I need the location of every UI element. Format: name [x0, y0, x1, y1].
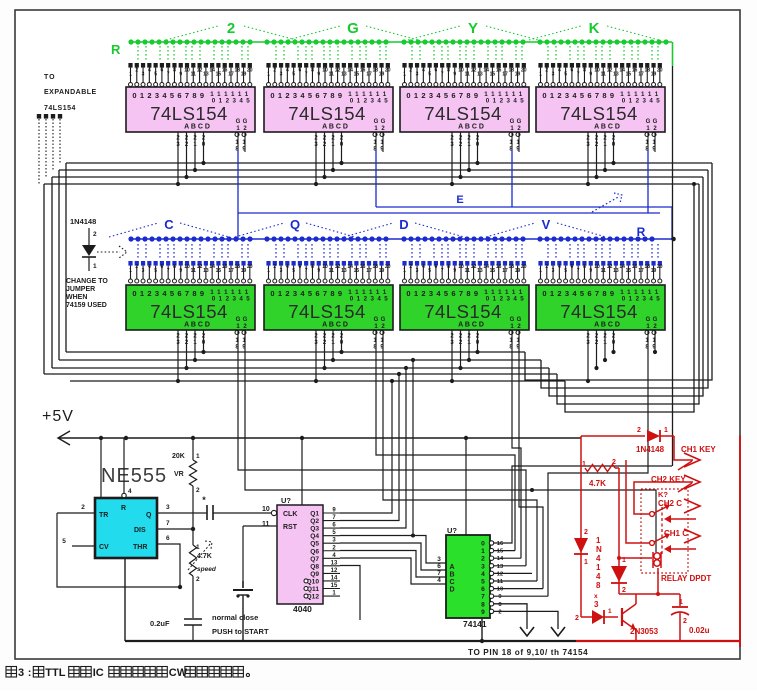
NE555 pin 2 TR wire	[57, 512, 95, 514]
svg-text:V: V	[542, 217, 551, 232]
wire lower bus 4	[44, 373, 557, 375]
wire bus B (top horizontal)	[59, 169, 708, 171]
svg-text:K: K	[589, 20, 600, 37]
svg-text:8: 8	[447, 264, 450, 270]
svg-text:G: G	[517, 119, 522, 125]
wire +5V junction to 74141	[465, 438, 467, 535]
wire U6 G pins down	[376, 331, 515, 551]
svg-text:Q12: Q12	[307, 594, 320, 601]
svg-text:3: 3	[142, 268, 145, 274]
svg-text:7: 7	[441, 72, 444, 78]
expansion dotted wires	[38, 119, 40, 184]
svg-text:2: 2	[196, 576, 200, 583]
svg-text:2: 2	[93, 231, 97, 238]
svg-text:5: 5	[170, 91, 174, 100]
wire bus D (top horizontal)	[44, 183, 699, 185]
svg-text:14: 14	[347, 68, 353, 74]
svg-text:1: 1	[550, 91, 554, 100]
svg-text:4: 4	[239, 296, 243, 303]
svg-text:4: 4	[377, 296, 381, 303]
svg-text:12: 12	[335, 264, 341, 270]
wires U2 ABCD pins to bus	[315, 132, 317, 184]
expansion pin squares	[37, 114, 41, 119]
svg-text:NE555: NE555	[101, 465, 167, 487]
svg-text:K?: K?	[658, 490, 668, 499]
svg-text:1: 1	[584, 559, 588, 566]
svg-text:8: 8	[583, 264, 586, 270]
svg-text:20: 20	[657, 264, 663, 270]
wire +5V to 4040 VCC	[301, 438, 303, 505]
NE555 pin 7 DIS wire	[157, 528, 193, 530]
svg-text:15: 15	[354, 72, 360, 78]
NE555 pin 3 Q output wire	[157, 512, 205, 514]
svg-text:7: 7	[481, 594, 485, 601]
svg-text:3: 3	[232, 98, 236, 105]
svg-text:5: 5	[170, 289, 174, 298]
svg-text:8: 8	[192, 91, 196, 100]
svg-text:19: 19	[241, 268, 247, 274]
svg-text:3: 3	[280, 268, 283, 274]
svg-text:4: 4	[513, 296, 517, 303]
svg-text::: :	[28, 667, 32, 679]
svg-text:PUSH to START: PUSH to START	[212, 627, 269, 636]
svg-text:10: 10	[184, 68, 190, 74]
svg-text:3: 3	[552, 72, 555, 78]
IC U4 74LS154 (top row)	[538, 63, 542, 68]
svg-text:12: 12	[471, 68, 477, 74]
svg-text:G: G	[653, 317, 658, 323]
wire U5 G1 down to 74141 output	[238, 331, 526, 566]
svg-text:2: 2	[135, 264, 138, 270]
svg-text:0: 0	[481, 541, 485, 548]
svg-text:4: 4	[128, 488, 132, 495]
svg-text:20: 20	[521, 68, 527, 74]
svg-text:2: 2	[285, 91, 289, 100]
svg-text:U?: U?	[447, 526, 457, 535]
wire U2 G pins down (blue)	[375, 150, 377, 207]
NE555 pin 4 reset to +5V	[123, 438, 125, 494]
svg-text:2: 2	[584, 529, 588, 536]
svg-text:74LS154: 74LS154	[560, 301, 638, 322]
svg-text:6: 6	[315, 91, 319, 100]
svg-text:1: 1	[539, 72, 542, 78]
svg-text:1: 1	[278, 289, 282, 298]
svg-text:1: 1	[140, 91, 144, 100]
wire U4 G pins down (blue)	[647, 150, 649, 213]
svg-text:20K: 20K	[172, 453, 185, 460]
svg-text:10: 10	[594, 68, 600, 74]
svg-text:19: 19	[241, 72, 247, 78]
svg-text:20: 20	[385, 68, 391, 74]
svg-text:3: 3	[293, 289, 297, 298]
wire CH1 KEY to pole 1	[626, 460, 649, 543]
svg-text:8: 8	[311, 68, 314, 74]
svg-text:16: 16	[496, 68, 502, 74]
svg-text:4: 4	[422, 264, 425, 270]
svg-text:1: 1	[582, 461, 586, 468]
svg-text:6: 6	[435, 68, 438, 74]
svg-text:4: 4	[437, 577, 441, 584]
svg-text:11: 11	[329, 72, 335, 78]
svg-text:4: 4	[513, 98, 517, 105]
relay mechanical link dashed	[661, 507, 663, 556]
svg-text:19: 19	[651, 268, 657, 274]
svg-text:2: 2	[557, 289, 561, 298]
svg-text:2: 2	[622, 587, 626, 594]
wires 74141 bottom outputs to arrows	[494, 604, 527, 629]
svg-text:74LS154: 74LS154	[560, 103, 638, 124]
svg-text:2: 2	[545, 264, 548, 270]
svg-text:8: 8	[466, 91, 470, 100]
svg-text:8: 8	[173, 68, 176, 74]
wire red right rail	[618, 468, 620, 594]
svg-text:JUMPER: JUMPER	[66, 286, 95, 293]
wire blue enable net from U1 G pins	[237, 150, 239, 239]
svg-text:7: 7	[437, 570, 441, 577]
svg-text:5: 5	[384, 296, 388, 303]
svg-text:7: 7	[323, 91, 327, 100]
svg-text:G: G	[243, 119, 248, 125]
svg-text:2N3053: 2N3053	[630, 627, 659, 636]
svg-text:*: *	[202, 495, 206, 505]
wire CH2 KEY to pole 2	[634, 482, 693, 514]
svg-text:8: 8	[602, 91, 606, 100]
svg-text:CLK: CLK	[283, 511, 297, 518]
wire lower bus 3	[52, 367, 549, 369]
green dashed ticks below top bus	[138, 46, 658, 61]
svg-text:6: 6	[315, 289, 319, 298]
svg-text:CH2 C: CH2 C	[658, 499, 682, 508]
svg-text:0.02u: 0.02u	[689, 626, 710, 635]
wire left bracket 4	[43, 184, 45, 374]
svg-text:TO PIN 18 of 9,10/ th 74154: TO PIN 18 of 9,10/ th 74154	[468, 648, 588, 657]
svg-text:Y: Y	[468, 20, 478, 37]
svg-text:Q2: Q2	[310, 518, 319, 525]
svg-text:normal close: normal close	[212, 613, 258, 622]
svg-text:14: 14	[209, 264, 215, 270]
svg-text:20: 20	[521, 264, 527, 270]
wire blue horizontal E net lower	[238, 212, 660, 214]
svg-text:74LS154: 74LS154	[150, 103, 228, 124]
svg-text:1: 1	[539, 268, 542, 274]
svg-text:16: 16	[497, 541, 504, 547]
svg-text:5: 5	[292, 72, 295, 78]
svg-text:9: 9	[453, 72, 456, 78]
svg-text:3: 3	[142, 72, 145, 78]
svg-text:3: 3	[594, 600, 599, 609]
svg-text:5: 5	[564, 72, 567, 78]
svg-text:2: 2	[637, 427, 641, 434]
svg-text:G: G	[347, 20, 359, 37]
wire lower bus 2	[59, 359, 541, 361]
NE555 pin 1 gnd	[124, 558, 126, 641]
svg-text:12: 12	[335, 68, 341, 74]
svg-text:A B C D: A B C D	[184, 322, 210, 329]
svg-text:9: 9	[474, 289, 478, 298]
svg-text:0: 0	[270, 289, 274, 298]
svg-text:2: 2	[147, 289, 151, 298]
svg-text:9: 9	[179, 72, 182, 78]
svg-text:9: 9	[589, 72, 592, 78]
wires 4040 Q4-Q7 to 74141 inputs	[340, 536, 446, 564]
svg-text:WHEN: WHEN	[66, 294, 87, 301]
svg-text:12: 12	[607, 264, 613, 270]
svg-text:Q3: Q3	[310, 526, 319, 533]
NE555 pin 6 THR wire	[157, 544, 180, 587]
svg-text:4: 4	[286, 264, 289, 270]
svg-text:6: 6	[451, 91, 455, 100]
svg-text:0: 0	[406, 289, 410, 298]
svg-text:18: 18	[372, 264, 378, 270]
svg-text:3: 3	[642, 98, 646, 105]
svg-text:N: N	[596, 545, 602, 554]
IC U6 74LS154 (green row)	[266, 261, 270, 266]
svg-text:6: 6	[451, 289, 455, 298]
svg-text:1: 1	[414, 91, 418, 100]
svg-text:5: 5	[246, 98, 250, 105]
svg-text:G: G	[653, 119, 658, 125]
svg-text:8: 8	[447, 68, 450, 74]
svg-text:7: 7	[459, 91, 463, 100]
middle LED bus dots	[128, 236, 654, 241]
svg-text:5: 5	[292, 268, 295, 274]
svg-text:8: 8	[330, 289, 334, 298]
svg-text:2: 2	[273, 264, 276, 270]
svg-text:6: 6	[177, 289, 181, 298]
caption figure 3	[6, 667, 17, 678]
svg-text:5: 5	[656, 98, 660, 105]
svg-text:2: 2	[196, 487, 200, 494]
svg-text:5: 5	[481, 579, 485, 586]
svg-text:0.2uF: 0.2uF	[150, 619, 170, 628]
IC U2 74LS154 (top row)	[266, 63, 270, 68]
svg-text:7: 7	[577, 268, 580, 274]
svg-text:17: 17	[638, 268, 644, 274]
svg-text:A B C D: A B C D	[594, 124, 620, 131]
svg-text:4: 4	[286, 68, 289, 74]
svg-text:12: 12	[607, 68, 613, 74]
wires U5 ABCD pins to lower bus	[177, 330, 179, 381]
svg-text:2: 2	[612, 459, 616, 466]
svg-text:12: 12	[331, 568, 338, 574]
svg-text:6: 6	[166, 535, 170, 542]
svg-text:16: 16	[496, 264, 502, 270]
svg-text:5: 5	[444, 91, 448, 100]
svg-text:9: 9	[453, 268, 456, 274]
wire middle blue LED bus	[130, 238, 674, 240]
svg-text:9: 9	[474, 91, 478, 100]
svg-text:A B C D: A B C D	[184, 124, 210, 131]
IC U1 74LS154 (top row)	[128, 63, 132, 68]
svg-text:4: 4	[481, 571, 485, 578]
svg-text:13: 13	[613, 72, 619, 78]
svg-text:2: 2	[683, 618, 687, 625]
svg-text:18: 18	[508, 264, 514, 270]
relay pole 1 NC contact	[666, 548, 696, 550]
svg-text:14: 14	[209, 68, 215, 74]
svg-text:9: 9	[610, 289, 614, 298]
wire RST to pushbutton	[243, 525, 277, 527]
svg-text:15: 15	[626, 268, 632, 274]
svg-text:2: 2	[147, 91, 151, 100]
relay K? DPDT dotted box	[641, 489, 688, 573]
svg-text:2: 2	[421, 289, 425, 298]
wire long vertical from green bus to red circuit	[672, 66, 674, 466]
svg-text:0: 0	[406, 91, 410, 100]
svg-text:13: 13	[477, 268, 483, 274]
wires 74141 outputs staircase up right	[494, 466, 672, 543]
arrow down 2	[551, 627, 565, 636]
svg-text:1N4148: 1N4148	[70, 217, 96, 226]
svg-text:RST: RST	[283, 524, 298, 531]
wire 4040 Q8 down	[340, 566, 360, 621]
svg-text:3: 3	[280, 72, 283, 78]
svg-text:4: 4	[558, 68, 561, 74]
svg-text:Q9: Q9	[310, 571, 319, 578]
svg-text:7: 7	[305, 72, 308, 78]
svg-text:IC: IC	[93, 667, 104, 679]
svg-text:15: 15	[216, 72, 222, 78]
svg-text:12: 12	[471, 264, 477, 270]
wire red +V feed top	[581, 435, 645, 437]
wire left bracket 1	[65, 163, 67, 352]
svg-text:14: 14	[483, 264, 489, 270]
svg-text:12: 12	[197, 264, 203, 270]
wire bus C (top horizontal)	[52, 176, 703, 178]
svg-text:17: 17	[366, 268, 372, 274]
wire right ring 5	[565, 184, 694, 412]
svg-text:A: A	[449, 564, 454, 571]
svg-text:2: 2	[481, 556, 485, 563]
IC U3 74LS154 (top row)	[402, 63, 406, 68]
svg-text:7: 7	[595, 91, 599, 100]
wire ground rail bottom	[125, 640, 576, 642]
svg-text:THR: THR	[133, 544, 147, 551]
svg-text:74141: 74141	[463, 619, 487, 629]
wires U3 ABCD pins to bus	[451, 132, 453, 184]
svg-text:8: 8	[481, 601, 485, 608]
arrow down 1	[520, 627, 534, 636]
svg-text:3: 3	[293, 91, 297, 100]
IC U5 74LS154 (green row)	[128, 261, 132, 266]
svg-text:3: 3	[437, 556, 441, 563]
svg-text:7: 7	[166, 520, 170, 527]
svg-text:G: G	[243, 317, 248, 323]
svg-text:5: 5	[580, 289, 584, 298]
svg-text:13: 13	[341, 72, 347, 78]
svg-text:13: 13	[497, 564, 504, 570]
svg-text:TR: TR	[99, 512, 108, 519]
wires U8 ABCD pins to lower bus	[587, 330, 589, 381]
svg-text:3: 3	[429, 91, 433, 100]
svg-text:7: 7	[595, 289, 599, 298]
svg-text:4: 4	[649, 98, 653, 105]
svg-text:CH1 KEY: CH1 KEY	[681, 445, 716, 454]
svg-text:1: 1	[403, 72, 406, 78]
transistor Q1 2N3053	[621, 608, 623, 626]
svg-text:13: 13	[331, 560, 338, 566]
svg-text:15: 15	[354, 268, 360, 274]
svg-text:11: 11	[262, 521, 270, 528]
svg-text:16: 16	[360, 264, 366, 270]
svg-text:1: 1	[664, 427, 668, 434]
svg-text:3: 3	[155, 91, 159, 100]
red output stage group	[0, 0, 1, 1]
IC U7 74LS154 (green row)	[402, 261, 406, 266]
wire 74141 gnd	[481, 618, 483, 641]
svg-text:8: 8	[330, 91, 334, 100]
svg-text:8: 8	[583, 68, 586, 74]
svg-text:11: 11	[191, 72, 197, 78]
svg-text:G: G	[510, 119, 515, 125]
svg-text:4: 4	[377, 98, 381, 105]
svg-text:3: 3	[232, 296, 236, 303]
svg-text:14: 14	[331, 575, 338, 581]
NE555 feedback loop TR-THR	[57, 513, 180, 587]
wire bus A (top horizontal)	[66, 162, 712, 164]
wires U7 ABCD pins to lower bus	[451, 330, 453, 381]
svg-text:9: 9	[338, 91, 342, 100]
svg-text:6: 6	[299, 264, 302, 270]
svg-text:2: 2	[285, 289, 289, 298]
svg-text:D: D	[399, 217, 408, 232]
svg-text:7: 7	[441, 268, 444, 274]
svg-text:8: 8	[173, 264, 176, 270]
blue dotted arrow near R	[592, 196, 620, 212]
svg-text:9: 9	[610, 91, 614, 100]
svg-text:8: 8	[466, 289, 470, 298]
svg-text:Q10: Q10	[307, 578, 320, 585]
svg-text:6: 6	[587, 289, 591, 298]
svg-text:TTL: TTL	[45, 667, 65, 679]
svg-text:17: 17	[228, 72, 234, 78]
svg-text:3: 3	[370, 296, 374, 303]
svg-text:2: 2	[557, 91, 561, 100]
relay pole 2 arm	[654, 506, 668, 513]
svg-text:18: 18	[644, 264, 650, 270]
svg-text:G: G	[236, 119, 241, 125]
wire U3 G pins down (blue)	[511, 150, 513, 207]
svg-text:1: 1	[608, 608, 612, 615]
wire right ring 4	[557, 184, 699, 404]
wires 4040 Q1-Q4 up to lower bus	[340, 381, 392, 513]
potentiometer R2 4.7K speed	[192, 529, 194, 545]
wire lower bus 5	[70, 380, 565, 382]
svg-text:5: 5	[428, 72, 431, 78]
wire blue horizontal E net upper	[376, 206, 672, 208]
svg-text:74LS154: 74LS154	[424, 103, 502, 124]
svg-text:3: 3	[166, 504, 170, 511]
svg-text:+5V: +5V	[42, 408, 74, 425]
svg-text:17: 17	[502, 72, 508, 78]
svg-text:5: 5	[308, 91, 312, 100]
svg-text:18: 18	[508, 68, 514, 74]
svg-text:74159 USED: 74159 USED	[66, 302, 107, 309]
svg-text:15: 15	[497, 549, 504, 555]
svg-text:10: 10	[458, 68, 464, 74]
svg-text:10: 10	[322, 68, 328, 74]
svg-text:74LS154: 74LS154	[424, 301, 502, 322]
svg-text:G: G	[374, 317, 379, 323]
svg-text:0: 0	[542, 289, 546, 298]
svg-text:1: 1	[129, 72, 132, 78]
wire +5V rail	[58, 437, 581, 439]
svg-text:20: 20	[247, 68, 253, 74]
svg-text:14: 14	[483, 68, 489, 74]
pushbutton SW1 normal close	[242, 526, 244, 581]
svg-text:0: 0	[132, 91, 136, 100]
svg-text:1: 1	[267, 268, 270, 274]
